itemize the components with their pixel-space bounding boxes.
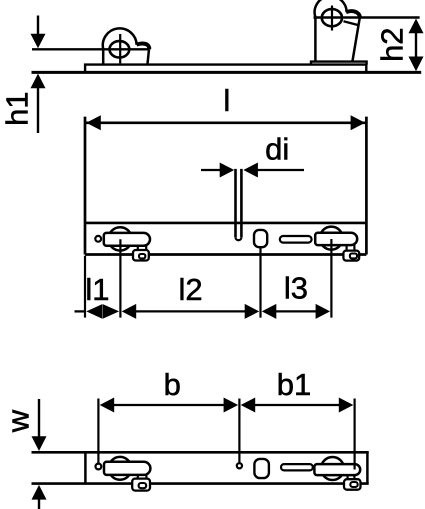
extension line left roller center	[119, 239, 121, 317]
dimension l2 right arrowhead	[245, 304, 260, 319]
dimension w lower arrowhead	[32, 485, 47, 500]
svg-text:b: b	[164, 367, 181, 402]
dimension h2 lower arrowhead	[409, 57, 424, 72]
right roller foot hole (bottom view)	[350, 482, 357, 487]
vertical slot (face view)	[254, 230, 267, 247]
left roller wheel (face view)	[108, 227, 131, 250]
right roller foot hole	[350, 254, 357, 259]
extension line b left (to small hole)	[97, 399, 99, 464]
dimension h2 upper arrowhead	[409, 19, 424, 34]
dimension l3 right arrowhead	[316, 304, 331, 319]
raised rail strip on plate	[85, 65, 366, 73]
right roller horizontal center line / h2 extension	[314, 16, 420, 18]
left roller axle housing (face view)	[104, 233, 150, 246]
dimension b1 line	[254, 404, 340, 406]
right roller wheel	[322, 9, 342, 26]
dimension l3 left arrowhead	[262, 304, 277, 319]
dimension h1 upper arrowhead	[31, 34, 46, 49]
bottom plate bottom line	[32, 482, 369, 485]
right roller bracket dome arc	[315, 0, 347, 17]
small hole left (bottom view)	[96, 464, 102, 470]
dimension di right line	[258, 169, 305, 171]
left roller axle housing (bottom view)	[104, 462, 150, 475]
left roller horizontal center line / h1 extension	[32, 48, 149, 50]
left roller bracket dome arc	[103, 28, 137, 49]
vertical slot (bottom view)	[254, 459, 269, 478]
right roller pedestal foot	[311, 62, 367, 65]
extension line b1 right (into axle)	[354, 399, 356, 470]
right roller bracket slanted right edge	[352, 18, 359, 62]
svg-text:l: l	[223, 83, 230, 118]
extension line at face left edge	[84, 256, 86, 318]
right roller axle housing (face view)	[315, 233, 357, 245]
dimension w upper arrow line	[38, 399, 40, 438]
dimension di right arrowhead	[243, 163, 258, 178]
svg-text:di: di	[265, 132, 289, 167]
right roller foot plate	[343, 251, 359, 261]
dimension w lower arrow line	[38, 499, 40, 509]
left roller wheel	[110, 41, 130, 57]
left roller bracket right edge	[147, 49, 149, 64]
dimension l2 line	[135, 310, 246, 312]
right roller vertical center line	[331, 6, 333, 31]
face rectangle bottom edge	[85, 253, 366, 256]
right roller clip beak	[346, 11, 360, 17]
left roller neck (bottom view)	[138, 475, 147, 479]
bottom plate left edge	[84, 452, 87, 483]
face band top line	[85, 222, 366, 225]
plate side profile top line	[32, 71, 422, 74]
dimension h1 upper arrow line	[37, 16, 39, 35]
bottom plate right edge	[366, 452, 369, 483]
left roller vertical center line	[119, 34, 121, 63]
dimension l1 tail	[75, 310, 86, 312]
left roller foot hole (bottom view)	[139, 483, 147, 488]
center pin right line	[240, 169, 243, 237]
svg-text:h1: h1	[0, 91, 35, 125]
center pin hole (bottom view)	[237, 463, 242, 468]
svg-text:b1: b1	[277, 367, 311, 402]
right roller clip inner line	[344, 21, 360, 25]
horizontal slot (bottom view)	[281, 464, 313, 470]
center pin left line	[234, 169, 237, 237]
dimension l2 left arrowhead	[122, 304, 137, 319]
left roller wheel (bottom view)	[109, 457, 132, 480]
right roller neck (bottom view)	[348, 475, 355, 479]
dimension l left arrowhead	[86, 115, 101, 130]
svg-text:h2: h2	[375, 27, 410, 61]
extension line vertical slot center	[259, 248, 261, 318]
right roller neck	[347, 245, 355, 251]
left roller foot plate (bottom view)	[132, 479, 150, 491]
bottom plate top line	[32, 451, 369, 454]
svg-text:w: w	[1, 409, 36, 433]
horizontal slot (face view)	[280, 236, 312, 243]
dimension di left line	[201, 169, 220, 171]
right roller foot plate (bottom view)	[344, 479, 361, 490]
dimension b right arrowhead	[224, 398, 239, 413]
dimension b line	[113, 404, 225, 406]
dimension l1 left arrowhead	[86, 304, 102, 319]
dimension b left arrowhead	[100, 398, 115, 413]
face rectangle left edge	[84, 117, 87, 255]
dimension b1 left arrowhead	[241, 398, 256, 413]
center pin bottom cap	[236, 237, 242, 240]
face rectangle top edge / l dimension line	[85, 121, 366, 124]
dimension b1 right arrowhead	[339, 398, 354, 413]
face rectangle right edge	[365, 117, 368, 255]
small hole left	[95, 236, 101, 242]
dimension l1 right arrowhead	[103, 304, 119, 319]
left roller bracket left edge	[102, 49, 105, 64]
svg-text:l1: l1	[85, 272, 109, 307]
dimension h1 lower arrow line	[37, 88, 39, 134]
left roller foot plate	[133, 250, 149, 261]
extension line right roller center	[330, 239, 332, 318]
dimension h2 arrow line	[415, 32, 417, 58]
right roller wheel (bottom view)	[321, 457, 344, 480]
svg-text:l2: l2	[179, 272, 203, 307]
svg-text:l3: l3	[284, 271, 308, 306]
left roller clip beak	[137, 43, 150, 49]
dimension h1 lower arrowhead	[31, 74, 46, 89]
dimension di left arrowhead	[220, 163, 235, 178]
left roller foot hole	[139, 254, 145, 258]
dimension l right arrowhead	[351, 115, 366, 130]
left roller neck	[138, 246, 146, 251]
dimension w upper arrowhead	[32, 436, 47, 451]
right roller axle housing (bottom view)	[314, 464, 360, 475]
right roller bracket left edge	[314, 18, 317, 62]
dimension l3 line	[275, 310, 316, 312]
right roller wheel (face view)	[320, 227, 343, 250]
extension line b/b1 middle (to pin hole)	[238, 399, 240, 463]
